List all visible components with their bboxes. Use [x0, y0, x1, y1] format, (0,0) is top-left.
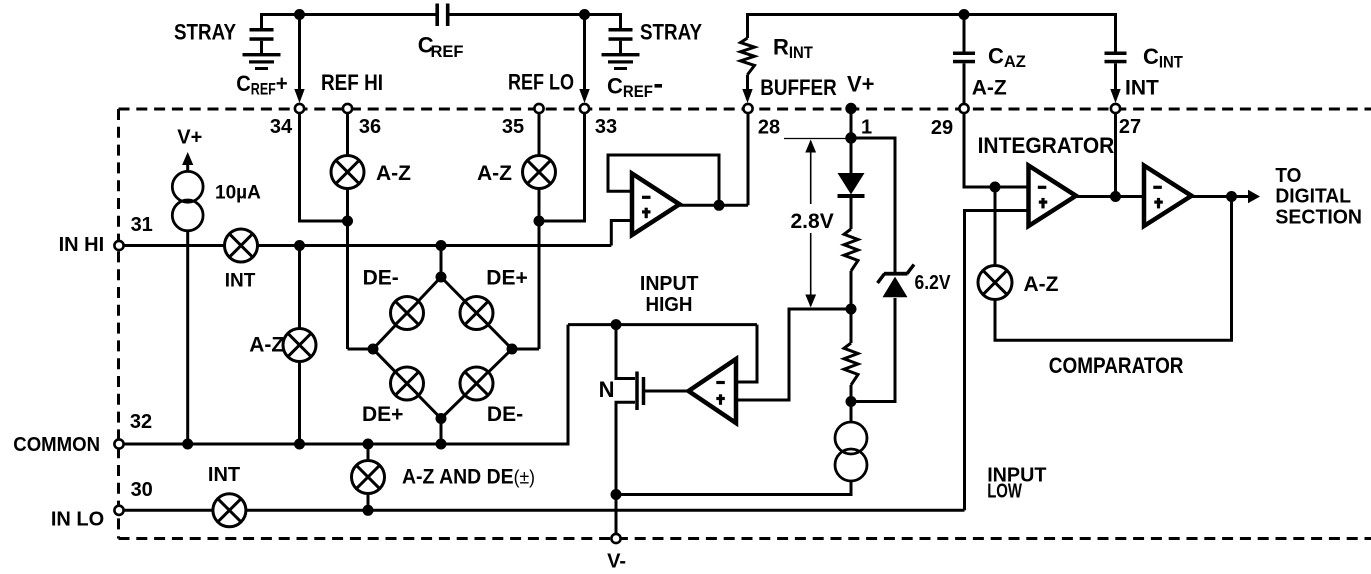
node comparator output feedback	[1226, 191, 1237, 202]
wire pin29 down to integrator minus	[964, 113, 1029, 187]
svg-text:V+: V+	[847, 72, 875, 97]
node V+ branch	[845, 132, 856, 143]
diode	[838, 173, 865, 195]
switch INT on IN HI	[225, 229, 258, 262]
svg-text:COMMON: COMMON	[13, 434, 100, 456]
svg-text:A-Z: A-Z	[376, 162, 411, 185]
switch A-Z on IN HI drop	[283, 329, 316, 362]
svg-text:29: 29	[931, 117, 953, 139]
switch INT on IN LO	[213, 494, 246, 527]
pin 32 COMMON	[114, 439, 123, 448]
wire IN HI	[124, 244, 612, 247]
node drain tap	[611, 319, 622, 330]
svg-text:SECTION: SECTION	[1275, 206, 1362, 228]
junction dots on COMMON	[182, 439, 193, 450]
svg-text:30: 30	[131, 479, 153, 501]
wire comparator output	[1192, 195, 1250, 198]
2.8V arrow	[810, 141, 812, 204]
wire pin33 down elbow to pin35 line	[539, 113, 585, 221]
bridge vertex dots	[436, 272, 447, 283]
pin 1 V+	[845, 103, 856, 114]
op-amp COMPARATOR	[1144, 166, 1192, 227]
capacitor CAZ	[963, 15, 966, 53]
svg-text:V+: V+	[177, 127, 202, 149]
wire top right rail	[748, 13, 1116, 16]
switch A-Z on pin35 line	[523, 156, 556, 189]
wire COMMON to IN LO through A-Z AND DE switch	[367, 444, 370, 510]
wire pin35 down through A-Z switch to bridge right vertex	[538, 113, 541, 349]
svg-text:BUFFER: BUFFER	[760, 75, 836, 100]
svg-text:A-Z AND DE(±): A-Z AND DE(±)	[402, 465, 535, 488]
chip boundary dashed bottom	[119, 537, 1371, 540]
stray capacitor right	[619, 13, 622, 29]
switch A-Z AND DE	[352, 461, 385, 494]
pin 30 IN LO	[114, 506, 123, 515]
svg-text:DE+: DE+	[486, 267, 527, 290]
wire into pin 34 with arrow	[298, 15, 301, 93]
node 2.8V tap	[846, 304, 857, 315]
node CREF- top wire junction	[579, 9, 590, 20]
wire current source to COMMON	[186, 231, 189, 444]
pin 34 CREF+	[295, 104, 304, 113]
svg-text:INTEGRATOR: INTEGRATOR	[978, 133, 1115, 158]
node IN HI to bridge top	[436, 240, 447, 251]
op-amp BUFFER	[632, 174, 680, 236]
op-amp INPUT HIGH (points left)	[689, 359, 737, 423]
svg-text:DIGITAL: DIGITAL	[1275, 186, 1351, 208]
svg-text:34: 34	[270, 116, 293, 138]
svg-text:33: 33	[595, 116, 617, 138]
chip boundary dashed top	[119, 108, 1371, 111]
wire IN LO	[124, 509, 965, 512]
ground right stray	[602, 53, 640, 56]
svg-text:N: N	[599, 377, 615, 402]
svg-text:REF LO: REF LO	[508, 70, 574, 95]
svg-text:28: 28	[758, 117, 780, 139]
pin 31 IN HI	[114, 241, 123, 250]
wire pin34 down elbow to REF HI line	[300, 113, 348, 221]
svg-text:INT: INT	[208, 464, 240, 486]
svg-text:COMPARATOR: COMPARATOR	[1049, 353, 1184, 378]
svg-text:LOW: LOW	[987, 481, 1022, 503]
pin 36 REF HI	[343, 104, 352, 113]
node below resistors	[846, 396, 857, 407]
svg-text:DE-: DE-	[363, 267, 399, 290]
svg-text:IN LO: IN LO	[51, 509, 104, 531]
capacitor CREF	[435, 4, 439, 27]
bridge wires	[373, 277, 441, 349]
zener diode 6.2V	[884, 272, 908, 276]
svg-text:A-Z: A-Z	[477, 162, 512, 185]
ground left stray	[243, 53, 281, 56]
svg-text:TO: TO	[1275, 165, 1301, 187]
wire plus input (from 2.8V tap)	[736, 399, 789, 402]
2.8V measure thin line	[784, 138, 849, 140]
node integrator output / CINT	[1110, 191, 1121, 202]
pin 29 A-Z	[959, 104, 968, 113]
wire drain	[616, 325, 635, 379]
wire source	[616, 402, 635, 536]
wire minus input riser	[736, 325, 757, 382]
wire pin27 down to integrator output	[1114, 113, 1117, 197]
pin 28 BUFFER	[743, 104, 752, 113]
svg-text:STRAY: STRAY	[174, 20, 236, 45]
current source 10uA circles	[172, 171, 203, 202]
svg-text:A-Z: A-Z	[972, 77, 1007, 100]
svg-text:10µA: 10µA	[215, 183, 261, 204]
node IN HI to A-Z drop	[294, 240, 305, 251]
node source to current source wire	[611, 489, 622, 500]
svg-text:32: 32	[130, 411, 152, 433]
capacitor CINT	[1114, 13, 1117, 52]
current source lower circles	[835, 422, 867, 454]
arrow up to V+	[182, 152, 193, 165]
svg-text:36: 36	[359, 116, 381, 138]
wire V+ pin down	[850, 109, 853, 174]
svg-text:REF HI: REF HI	[321, 70, 383, 95]
node A-Z branch	[990, 182, 1001, 193]
wire IN LO riser to integrator plus	[965, 211, 1029, 511]
svg-text:A-Z: A-Z	[1024, 273, 1059, 296]
svg-text:INPUT: INPUT	[640, 273, 699, 295]
wire into pin 33 with arrow	[583, 15, 586, 93]
node CAZ rail	[959, 9, 970, 20]
wire buffer output to pin 28	[680, 204, 749, 207]
pin 27 INT	[1111, 104, 1120, 113]
pin 33 CREF-	[580, 104, 589, 113]
resistor upper	[844, 229, 858, 271]
wire zener branch	[851, 138, 895, 272]
wire top reference rail	[262, 13, 438, 16]
chip boundary dashed left	[117, 109, 120, 539]
pin 35 REF LO	[534, 104, 543, 113]
svg-text:INT: INT	[225, 271, 256, 292]
wire integrator output	[1076, 195, 1144, 198]
svg-text:DE-: DE-	[487, 403, 523, 426]
wire tap to input-high plus	[736, 309, 851, 400]
svg-text:V-: V-	[607, 551, 626, 573]
switch A-Z integrator	[978, 266, 1012, 300]
svg-text:27: 27	[1119, 116, 1141, 138]
resistor lower	[844, 343, 858, 385]
wire buffer feedback	[608, 155, 719, 205]
wire bridge top stub	[440, 246, 443, 278]
junction dots y221	[342, 216, 353, 227]
node CREF+ top wire junction	[294, 9, 305, 20]
wire IN HI drop through A-Z switch to COMMON	[298, 246, 301, 445]
bridge DE switches	[391, 297, 424, 330]
svg-text:DE+: DE+	[362, 403, 403, 426]
wire common rail to op-amp	[568, 323, 757, 326]
svg-text:INT: INT	[1125, 77, 1159, 100]
node on IN LO	[363, 505, 374, 516]
op-amp INTEGRATOR	[1029, 166, 1077, 227]
svg-text:REF: REF	[431, 42, 464, 61]
node buffer output feedback	[714, 200, 725, 211]
svg-text:IN HI: IN HI	[59, 234, 105, 256]
svg-text:31: 31	[131, 214, 153, 236]
svg-text:1: 1	[861, 117, 872, 139]
resistor RINT	[746, 13, 749, 38]
svg-text:STRAY: STRAY	[640, 20, 702, 45]
wire pin36 down through A-Z switch to bridge left vertex	[346, 113, 349, 349]
stray capacitor left	[260, 13, 263, 29]
wire A-Z branch down and feedback from comparator	[995, 187, 1232, 340]
svg-text:A-Z: A-Z	[249, 334, 284, 357]
wire COMMON	[124, 325, 569, 444]
pin V-	[611, 534, 620, 543]
wire bridge bottom stub to COMMON	[440, 419, 443, 445]
transistor N mosfet	[635, 372, 639, 411]
svg-text:6.2V: 6.2V	[915, 272, 952, 294]
svg-text:2.8V: 2.8V	[791, 210, 834, 233]
svg-text:35: 35	[502, 116, 524, 138]
svg-text:HIGH: HIGH	[646, 294, 693, 316]
wire current source down elbow left	[616, 481, 851, 494]
switch A-Z on pin36 line	[331, 156, 364, 189]
